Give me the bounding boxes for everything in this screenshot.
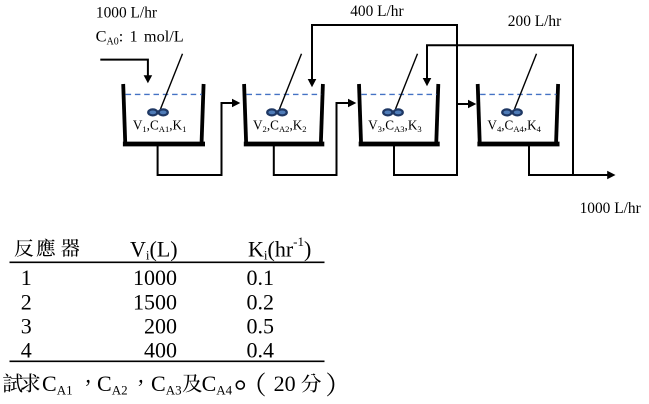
tank 4 liquid level (dashed) xyxy=(480,93,556,95)
tank 4 stirrer shaft xyxy=(515,54,537,109)
table bottom rule xyxy=(10,360,325,362)
tank 1 liquid level (dashed) xyxy=(126,93,202,95)
tank 2 vessel (reactor 2) xyxy=(244,84,324,144)
tank 2 stirrer shaft xyxy=(280,54,302,109)
svg-text:2: 2 xyxy=(21,290,32,315)
table header: reactor column 反應器 xyxy=(15,239,80,257)
tank 1 stirrer shaft xyxy=(161,54,183,109)
svg-text:4: 4 xyxy=(21,338,32,363)
question text: 試求 CA1, CA2, CA3 及 CA4 (20 分) xyxy=(3,371,334,398)
svg-text:0.5: 0.5 xyxy=(247,314,275,339)
svg-text:Vi(L): Vi(L) xyxy=(130,237,178,263)
svg-text:V2,CA2,K2: V2,CA2,K2 xyxy=(253,118,307,135)
pipe tank1 outlet to tank2 inlet xyxy=(158,99,241,175)
svg-text:200 L/hr: 200 L/hr xyxy=(508,13,561,30)
svg-text:3: 3 xyxy=(21,314,32,339)
tank 3 stirrer shaft xyxy=(396,54,418,109)
svg-text:0.1: 0.1 xyxy=(247,265,275,290)
tank 3 liquid level (dashed) xyxy=(361,93,436,95)
svg-text:CA2: CA2 xyxy=(97,371,128,398)
svg-text:CA3: CA3 xyxy=(151,371,182,398)
recycle pipe 200 L/hr from product line to tank3 xyxy=(423,45,573,175)
table row 1: reactor 1, V=1000 L, K=0.1 /hr xyxy=(21,265,274,290)
pipe tank2 outlet to tank3 inlet xyxy=(274,99,357,175)
svg-text:V3,CA3,K3: V3,CA3,K3 xyxy=(368,118,422,135)
recycle pipe 400 L/hr from junction to tank2 xyxy=(308,25,457,105)
feed pipe into tank 1 xyxy=(100,60,152,84)
svg-text:200: 200 xyxy=(144,314,177,339)
pipe junction to tank4 inlet xyxy=(457,100,476,109)
table row 3: reactor 3, V=200 L, K=0.5 /hr xyxy=(21,314,274,339)
svg-text:0.4: 0.4 xyxy=(247,338,275,363)
tank 3 stirrer impeller xyxy=(382,108,404,116)
table top rule xyxy=(10,261,325,263)
tank 4 vessel (reactor 4) xyxy=(477,84,559,144)
svg-text:1: 1 xyxy=(21,265,32,290)
svg-text:Ki(hr-1): Ki(hr-1) xyxy=(248,234,311,263)
svg-text:1000 L/hr: 1000 L/hr xyxy=(580,200,641,217)
svg-text:20: 20 xyxy=(274,371,296,396)
tank 1 vessel (reactor 1) xyxy=(123,84,205,144)
svg-text:1000: 1000 xyxy=(133,265,177,290)
tank 2 liquid level (dashed) xyxy=(247,93,322,95)
table row 4: reactor 4, V=400 L, K=0.4 /hr xyxy=(21,338,274,363)
svg-text:400 L/hr: 400 L/hr xyxy=(350,3,403,20)
tank 3 vessel (reactor 3) xyxy=(359,84,440,144)
svg-text:CA0: 1 mol/L: CA0: 1 mol/L xyxy=(96,27,184,48)
svg-text:V1,CA1,K1: V1,CA1,K1 xyxy=(133,118,187,135)
svg-text:0.2: 0.2 xyxy=(247,290,275,315)
tank 4 stirrer impeller xyxy=(501,108,523,116)
pipe tank3 outlet to junction xyxy=(394,104,457,175)
tank 1 stirrer impeller xyxy=(147,108,169,116)
pipe tank4 outlet to product xyxy=(529,146,616,179)
svg-text:CA1: CA1 xyxy=(42,371,73,398)
tank 2 stirrer impeller xyxy=(266,108,288,116)
svg-text:400: 400 xyxy=(144,338,177,363)
svg-text:1500: 1500 xyxy=(133,290,177,315)
svg-text:CA4: CA4 xyxy=(202,371,233,398)
svg-text:1000 L/hr: 1000 L/hr xyxy=(96,4,157,21)
svg-text:V4,CA4,K4: V4,CA4,K4 xyxy=(487,118,541,135)
table row 2: reactor 2, V=1500 L, K=0.2 /hr xyxy=(21,290,274,315)
